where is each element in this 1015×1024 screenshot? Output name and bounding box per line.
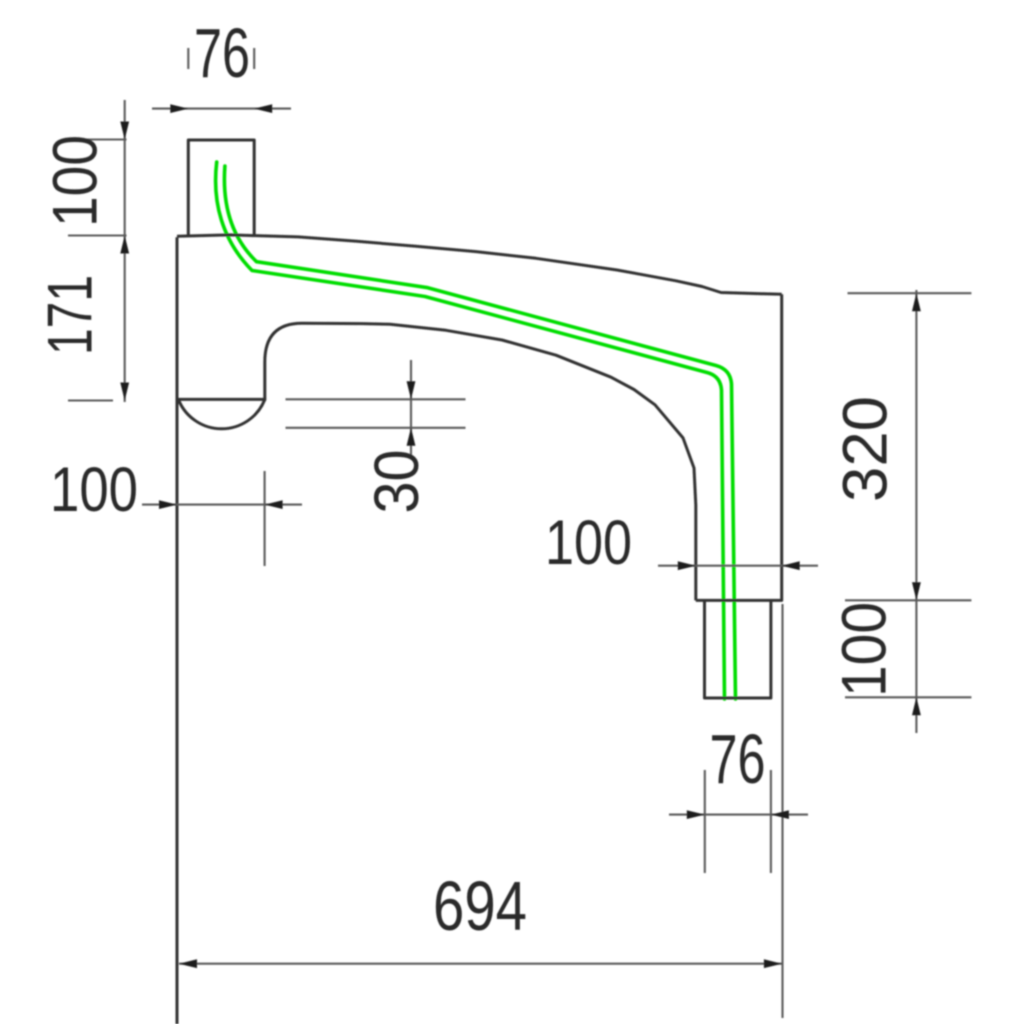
svg-text:320: 320 — [831, 396, 901, 502]
svg-text:100: 100 — [50, 455, 138, 525]
svg-text:76: 76 — [194, 14, 250, 92]
svg-text:694: 694 — [433, 867, 527, 945]
svg-text:30: 30 — [362, 450, 432, 514]
svg-text:76: 76 — [710, 720, 766, 798]
svg-text:100: 100 — [830, 602, 900, 697]
svg-text:171: 171 — [36, 275, 106, 355]
svg-text:100: 100 — [41, 135, 111, 227]
svg-text:100: 100 — [545, 508, 632, 578]
